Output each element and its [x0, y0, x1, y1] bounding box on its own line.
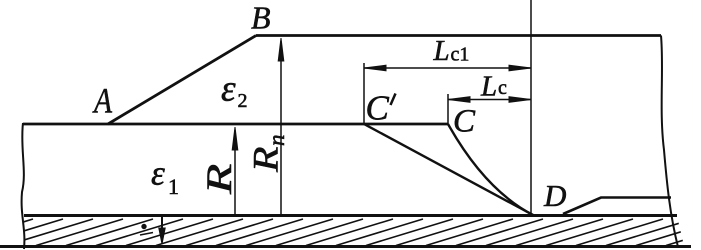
top outline line B-right [256, 34, 661, 37]
dimension L_c1 arrows [364, 65, 531, 71]
hatch lines [0, 219, 701, 246]
svg-text:C: C [366, 89, 390, 128]
left break (wavy) edge [22, 123, 25, 249]
svg-text:L: L [480, 71, 497, 103]
svg-text:c1: c1 [451, 44, 470, 66]
extension line at C' [363, 63, 365, 124]
bottom line (axis) [0, 245, 691, 248]
svg-text:ε: ε [221, 69, 236, 110]
middle outline line y=124 [23, 123, 448, 126]
step outline right of D [563, 198, 671, 215]
hatch band (roll section) [0, 219, 701, 246]
diagonal A-B [108, 36, 256, 125]
curve C-D [448, 124, 533, 215]
svg-text:c: c [498, 77, 507, 99]
svg-text:R: R [199, 164, 239, 195]
svg-text:R: R [246, 146, 286, 173]
small arrow at roll (radius mark) [140, 217, 165, 244]
svg-text:n: n [264, 135, 289, 147]
line C'-D [364, 124, 533, 215]
svg-text:2: 2 [238, 90, 248, 112]
svg-text:B: B [251, 0, 271, 36]
vertical extension line through D [530, 0, 532, 215]
svg-text:ε: ε [151, 154, 165, 193]
R_n dimension arrow [278, 38, 284, 216]
R dimension arrow [232, 127, 238, 216]
svg-text:A: A [92, 82, 113, 121]
svg-text:1: 1 [168, 174, 179, 199]
svg-text:D: D [543, 178, 566, 213]
svg-text:C: C [453, 104, 476, 140]
svg-text:L: L [433, 35, 450, 67]
right break (wavy) edge [661, 36, 678, 248]
dimension L_c arrows [448, 97, 531, 103]
hatch top line (roll surface) [24, 214, 677, 217]
extension line at C [447, 94, 449, 124]
